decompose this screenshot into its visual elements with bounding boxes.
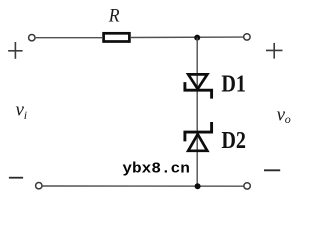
label vo (output voltage) — [277, 105, 291, 127]
terminal TR (open circle) — [244, 34, 250, 40]
node junction top (dot) — [194, 35, 200, 41]
svg-text:D2: D2 — [221, 128, 246, 154]
svg-text:R: R — [108, 6, 120, 27]
zener diode D1 cathode bar with bent ends — [185, 84, 212, 98]
svg-text:o: o — [285, 112, 291, 126]
wire bottom: terminal BL to terminal BR — [42, 185, 244, 187]
wire top-left: terminal TL to resistor R — [35, 37, 102, 39]
plus sign top-left — [8, 42, 23, 59]
terminal TL (open circle) — [29, 35, 35, 41]
wire top-right: resistor R to terminal TR — [131, 36, 244, 38]
minus sign bottom-right — [264, 169, 280, 171]
minus sign bottom-left — [9, 177, 23, 179]
svg-text:i: i — [24, 108, 27, 122]
wire vertical branch (junction top to junction bottom) — [196, 38, 198, 187]
zener diode D1 (pointing down, triangle) — [188, 74, 207, 89]
svg-text:ybx8.cn: ybx8.cn — [122, 161, 189, 178]
terminal BL (open circle) — [36, 183, 42, 189]
label vi (input voltage) — [16, 100, 28, 122]
zener diode D2 cathode bar with bent ends — [185, 123, 212, 139]
terminal BR (open circle) — [244, 183, 250, 189]
svg-text:D1: D1 — [221, 72, 246, 98]
plus sign top-right — [266, 43, 283, 59]
node junction bottom (dot) — [195, 183, 201, 189]
resistor R — [104, 33, 130, 41]
zener diode D2 (pointing up, triangle) — [188, 134, 207, 151]
